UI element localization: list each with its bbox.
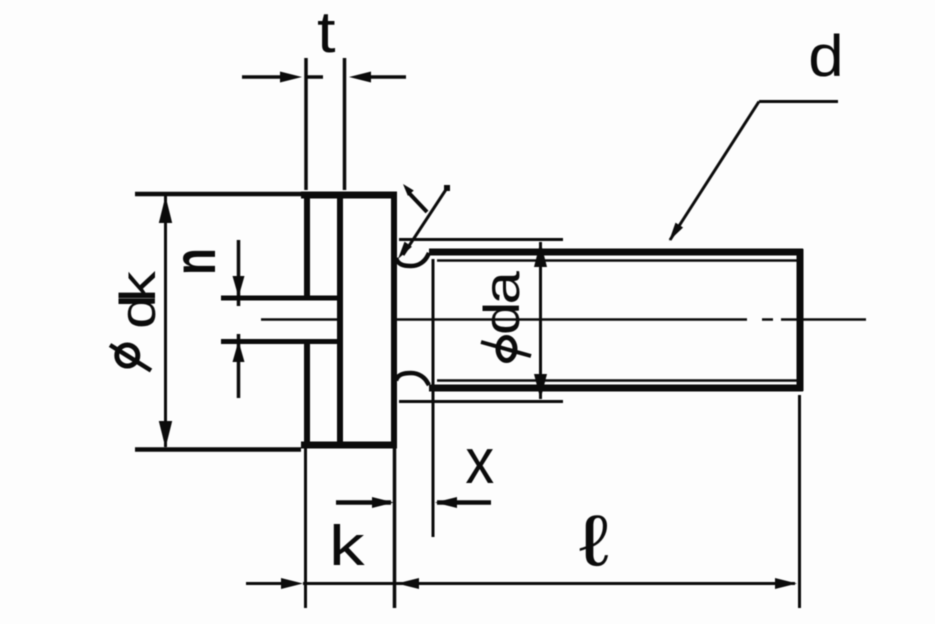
svg-text:dk: dk: [110, 270, 166, 329]
svg-text:n: n: [163, 248, 229, 275]
svg-text:da: da: [474, 271, 530, 335]
svg-text:k: k: [329, 514, 365, 578]
svg-text:ℓ: ℓ: [579, 500, 609, 581]
svg-text:t: t: [317, 0, 336, 65]
svg-text:d: d: [808, 24, 843, 89]
svg-text:x: x: [465, 425, 494, 496]
